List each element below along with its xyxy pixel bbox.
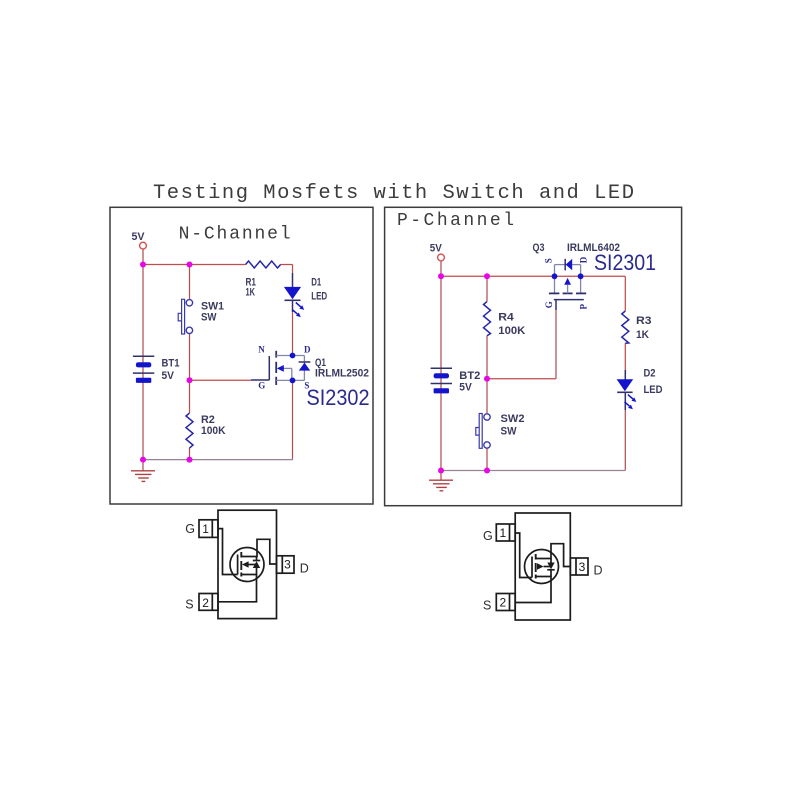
svg-text:100K: 100K xyxy=(498,325,525,337)
svg-text:BT1: BT1 xyxy=(162,357,180,369)
svg-text:R4: R4 xyxy=(498,311,514,323)
svg-text:5V: 5V xyxy=(459,381,472,393)
svg-text:3: 3 xyxy=(284,558,291,572)
svg-text:D: D xyxy=(579,256,589,263)
svg-text:LED: LED xyxy=(311,291,327,303)
svg-text:1: 1 xyxy=(202,522,209,536)
svg-text:1K: 1K xyxy=(636,329,649,341)
svg-text:Testing Mosfets with Switch an: Testing Mosfets with Switch and LED xyxy=(153,182,634,205)
svg-text:IRLML2502: IRLML2502 xyxy=(315,367,369,379)
svg-text:SW: SW xyxy=(501,426,518,438)
svg-text:P: P xyxy=(579,304,589,310)
svg-text:BT2: BT2 xyxy=(459,370,480,382)
svg-text:R3: R3 xyxy=(636,315,652,327)
svg-text:SI2302: SI2302 xyxy=(307,385,370,410)
svg-text:1: 1 xyxy=(500,526,507,540)
svg-text:D1: D1 xyxy=(311,276,321,288)
svg-text:D: D xyxy=(594,563,603,577)
svg-text:S: S xyxy=(185,597,193,611)
svg-text:G: G xyxy=(185,522,195,536)
svg-text:SW: SW xyxy=(201,311,217,323)
svg-text:SW2: SW2 xyxy=(501,413,525,425)
svg-text:D: D xyxy=(300,561,309,575)
svg-text:N: N xyxy=(258,345,265,355)
svg-text:100K: 100K xyxy=(201,425,226,437)
svg-text:1K: 1K xyxy=(246,286,256,298)
svg-text:D: D xyxy=(304,345,311,355)
svg-text:D2: D2 xyxy=(644,368,656,380)
svg-text:LED: LED xyxy=(644,384,663,396)
svg-text:5V: 5V xyxy=(430,243,443,255)
svg-text:2: 2 xyxy=(500,595,507,609)
svg-text:5V: 5V xyxy=(132,231,146,243)
svg-text:SI2301: SI2301 xyxy=(594,250,656,275)
svg-text:P-Channel: P-Channel xyxy=(397,211,514,231)
svg-text:S: S xyxy=(544,258,554,263)
svg-text:3: 3 xyxy=(579,560,586,574)
svg-text:N-Channel: N-Channel xyxy=(179,224,291,244)
svg-text:S: S xyxy=(483,598,491,612)
svg-text:G: G xyxy=(258,381,265,391)
svg-text:2: 2 xyxy=(202,596,209,610)
svg-text:Q3: Q3 xyxy=(533,242,545,254)
svg-text:G: G xyxy=(483,529,493,543)
svg-text:5V: 5V xyxy=(162,370,175,382)
svg-text:G: G xyxy=(544,301,554,308)
